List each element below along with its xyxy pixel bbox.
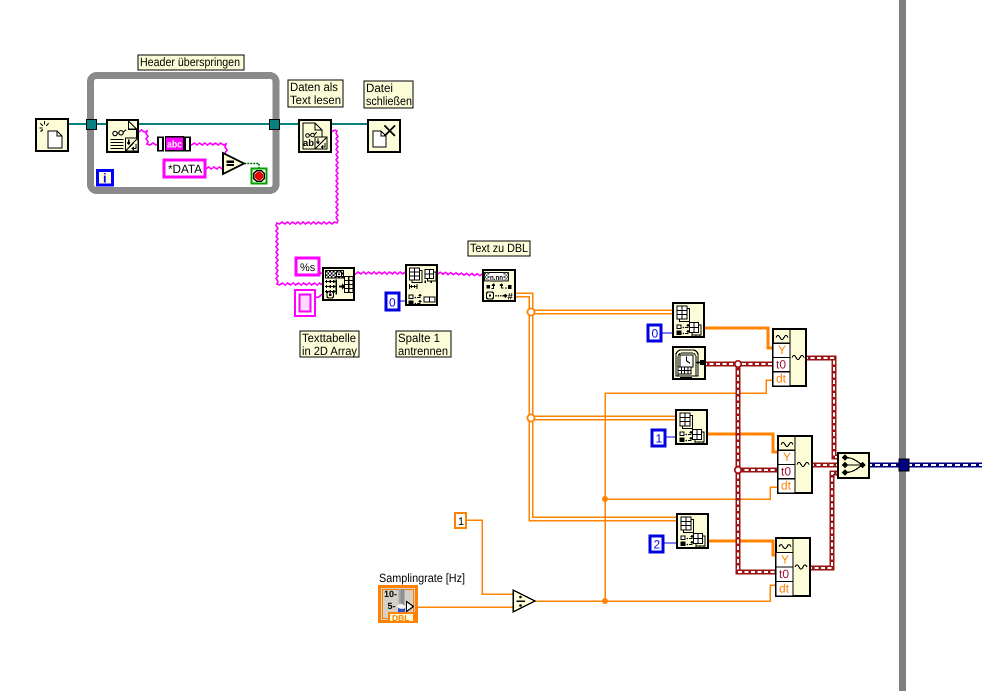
- svg-text:Text lesen: Text lesen: [290, 93, 341, 107]
- svg-text:n.nn: n.nn: [490, 273, 503, 282]
- svg-text:schließen: schließen: [366, 94, 412, 108]
- svg-text:dt: dt: [776, 372, 787, 386]
- svg-text:Daten als: Daten als: [290, 80, 338, 94]
- svg-text:antrennen: antrennen: [398, 344, 448, 358]
- svg-text:Header überspringen: Header überspringen: [140, 55, 240, 69]
- svg-text:Text zu DBL: Text zu DBL: [470, 241, 528, 255]
- svg-text:Samplingrate [Hz]: Samplingrate [Hz]: [379, 571, 465, 585]
- svg-text:dt: dt: [781, 479, 792, 493]
- svg-text:t0: t0: [781, 464, 791, 478]
- svg-text:5-: 5-: [388, 601, 396, 611]
- svg-text:Y: Y: [778, 343, 786, 357]
- svg-text:Y: Y: [781, 553, 789, 567]
- svg-text:2: 2: [654, 538, 661, 552]
- svg-text:ab: ab: [303, 138, 314, 149]
- svg-text:abc: abc: [167, 140, 182, 151]
- svg-text:10-: 10-: [384, 589, 397, 599]
- svg-text:0: 0: [389, 296, 396, 310]
- svg-text:t0: t0: [776, 357, 786, 371]
- svg-text:dt: dt: [779, 582, 790, 596]
- svg-text:Spalte 1: Spalte 1: [398, 331, 440, 345]
- svg-text:0: 0: [652, 327, 659, 341]
- svg-text:%s: %s: [300, 262, 316, 274]
- svg-text:1: 1: [458, 516, 464, 528]
- svg-text:#: #: [508, 292, 514, 303]
- svg-text:in 2D Array: in 2D Array: [302, 344, 357, 358]
- svg-text:i: i: [103, 171, 107, 186]
- svg-text:DBL: DBL: [392, 613, 409, 623]
- svg-text:1: 1: [656, 432, 663, 446]
- svg-text:t0: t0: [779, 567, 789, 581]
- svg-text:*DATA: *DATA: [168, 162, 202, 176]
- svg-text:Texttabelle: Texttabelle: [302, 331, 356, 345]
- svg-text:Y: Y: [783, 450, 791, 464]
- svg-text:Datei: Datei: [366, 81, 393, 95]
